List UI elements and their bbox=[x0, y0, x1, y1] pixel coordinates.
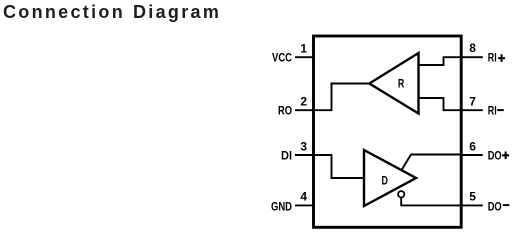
svg-text:VCC: VCC bbox=[272, 51, 292, 65]
svg-text:7: 7 bbox=[469, 95, 476, 109]
svg-text:6: 6 bbox=[469, 139, 476, 153]
svg-text:4: 4 bbox=[300, 190, 307, 204]
svg-text:2: 2 bbox=[300, 95, 307, 109]
svg-text:5: 5 bbox=[469, 190, 476, 204]
svg-text:3: 3 bbox=[300, 139, 307, 153]
svg-text:GND: GND bbox=[271, 199, 292, 213]
svg-text:RO: RO bbox=[278, 103, 292, 117]
svg-text:R: R bbox=[398, 77, 405, 91]
svg-text:RI: RI bbox=[488, 103, 497, 117]
svg-text:8: 8 bbox=[469, 41, 476, 55]
svg-text:DO: DO bbox=[488, 199, 502, 213]
svg-text:D: D bbox=[382, 174, 389, 188]
svg-text:RI: RI bbox=[488, 51, 497, 65]
svg-text:DO: DO bbox=[488, 148, 502, 162]
svg-text:1: 1 bbox=[300, 42, 307, 56]
svg-text:DI: DI bbox=[281, 148, 292, 162]
